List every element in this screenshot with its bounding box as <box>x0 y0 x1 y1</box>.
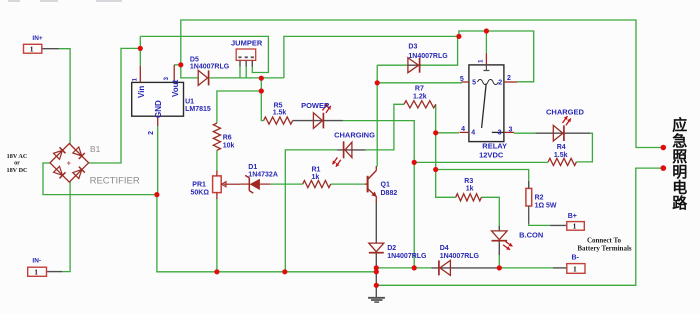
wire D3 node vertical <box>376 65 378 166</box>
svg-text:U1: U1 <box>185 99 194 106</box>
svg-text:R6: R6 <box>223 135 232 142</box>
svg-text:Vout: Vout <box>171 79 180 97</box>
wire node to R5 <box>261 91 263 121</box>
junction battery minus rail <box>374 283 379 288</box>
svg-text:RECTIFIER: RECTIFIER <box>90 176 140 187</box>
resistor R3 <box>456 194 482 201</box>
svg-text:1k: 1k <box>466 186 474 193</box>
bridge rectifier B1 <box>50 144 89 183</box>
junction Vout node <box>178 62 183 67</box>
wire ground rail jog <box>376 268 431 272</box>
resistor R7 <box>404 101 436 108</box>
svg-text:B+: B+ <box>568 213 577 220</box>
svg-text:D2: D2 <box>387 245 396 252</box>
svg-text:3: 3 <box>509 126 513 133</box>
wire output node to R6 <box>217 91 261 123</box>
svg-text:Connect To: Connect To <box>587 236 622 244</box>
svg-text:4: 4 <box>461 126 465 133</box>
terminal B- <box>567 264 585 274</box>
wire PR1 to ground rail <box>216 198 218 272</box>
wire bridge AC top stub <box>41 48 43 50</box>
wire U1 GND to rail <box>157 126 159 195</box>
svg-text:R4: R4 <box>557 144 566 151</box>
svg-text:1N4007RLG: 1N4007RLG <box>408 53 448 60</box>
wire R6 to PR1 <box>216 150 218 170</box>
svg-text:电: 电 <box>672 179 687 197</box>
junction Vin node <box>138 46 143 51</box>
svg-text:D882: D882 <box>381 190 398 197</box>
svg-text:1: 1 <box>573 222 577 231</box>
svg-text:Battery Terminals: Battery Terminals <box>577 244 632 252</box>
wire IN- to bridge bottom <box>62 182 70 272</box>
wire B+ stub <box>550 224 567 226</box>
junction D2 rail lower <box>374 269 379 274</box>
svg-text:1N4007RLG: 1N4007RLG <box>190 64 230 71</box>
svg-text:R2: R2 <box>535 195 544 202</box>
wire D5 cathode line <box>210 77 284 79</box>
resistor R2 <box>526 188 532 206</box>
svg-text:50KΩ: 50KΩ <box>191 190 210 197</box>
svg-text:R7: R7 <box>415 86 424 93</box>
svg-text:D1: D1 <box>248 164 257 171</box>
wire Q1 emitter to D2 to ground stem <box>375 202 377 243</box>
svg-text:1: 1 <box>30 45 34 54</box>
junction D2 rail upper <box>374 265 379 270</box>
svg-text:D5: D5 <box>190 56 199 63</box>
junction B.CON rail <box>497 265 502 270</box>
wire rail D4 to B.CON node <box>498 267 554 269</box>
wire relay pin 1 riser <box>485 31 487 54</box>
svg-text:2: 2 <box>498 79 502 86</box>
junction relay pin4 node A <box>433 130 438 135</box>
wire B.CON LED lower lead <box>498 242 500 256</box>
wire CHARGING LED to R7 elbow <box>366 104 404 150</box>
jumper JP1 <box>236 49 256 60</box>
terminal IN- <box>28 267 47 276</box>
wire CHARGED LED leads <box>535 132 590 134</box>
wire Vin riser <box>139 36 141 66</box>
wire B- stub <box>553 267 567 269</box>
svg-text:1Ω 5W: 1Ω 5W <box>535 203 557 210</box>
wire B.CON LED to rail <box>498 254 500 268</box>
svg-text:Vin: Vin <box>137 86 146 98</box>
diode D3 <box>408 58 419 73</box>
svg-text:照: 照 <box>672 148 687 165</box>
wire R2 to B+ terminal <box>529 223 550 225</box>
svg-text:R1: R1 <box>312 166 321 173</box>
wire D1 to R1 <box>270 183 302 185</box>
svg-text:10k: 10k <box>223 142 235 149</box>
wire relay pin 4 link <box>436 132 459 134</box>
wire coil node to relay pin 5 <box>377 82 462 84</box>
svg-text:B.CON: B.CON <box>519 231 543 240</box>
wire lamp line to R4 <box>414 161 548 163</box>
wire R7 to relay pin 4 node <box>435 104 437 133</box>
wire output rail to relay pin 2 <box>284 31 534 82</box>
wire CHARGED LED to relay pin 3 <box>514 132 535 134</box>
wire bridge negative rail <box>43 163 376 272</box>
svg-text:B-: B- <box>572 255 580 262</box>
svg-text:IN-: IN- <box>32 258 41 265</box>
wire top rail from Vout node to right side <box>181 20 663 148</box>
wire IN- stub <box>47 271 63 273</box>
junction relay pin1 node <box>484 28 489 33</box>
wire R1 to Q1 base <box>331 183 365 185</box>
zener diode D1 <box>251 180 260 190</box>
LED CHARGING <box>345 142 352 157</box>
wire D3 leads <box>408 64 422 66</box>
svg-text:3: 3 <box>498 130 502 137</box>
svg-text:1: 1 <box>34 268 38 277</box>
svg-text:5: 5 <box>472 79 476 86</box>
junction lamp return rail <box>412 265 417 270</box>
wire battery negative rail to output <box>376 168 662 285</box>
svg-text:IN+: IN+ <box>32 35 43 42</box>
svg-text:1N4007RLG: 1N4007RLG <box>387 253 427 260</box>
svg-text:RELAY: RELAY <box>482 142 507 151</box>
svg-text:2: 2 <box>507 75 511 82</box>
svg-text:or: or <box>14 160 20 167</box>
svg-text:LM7815: LM7815 <box>185 106 211 113</box>
wire IN+ stub <box>42 48 59 50</box>
junction R5 node <box>259 88 264 93</box>
wire output node vertical <box>260 78 262 91</box>
svg-text:明: 明 <box>672 164 687 181</box>
wire pin4 node to R2 <box>436 170 529 189</box>
wire D3 cathode riser <box>421 36 458 65</box>
svg-text:5: 5 <box>460 76 464 83</box>
wire CHARGING LED leads <box>337 149 365 151</box>
LED CHARGED <box>553 125 563 141</box>
svg-text:POWER: POWER <box>301 101 330 110</box>
wire R4 to CHARGED LED <box>576 133 592 162</box>
wire bridge positive to Vin <box>88 48 140 163</box>
svg-text:GND: GND <box>154 100 163 118</box>
ground <box>368 297 385 299</box>
LED POWER <box>313 113 322 129</box>
svg-text:D3: D3 <box>408 43 417 50</box>
resistor R5 <box>264 117 293 124</box>
svg-text:1N4007RLG: 1N4007RLG <box>440 253 480 260</box>
wire D4 leads <box>432 267 498 269</box>
svg-text:1: 1 <box>573 264 577 273</box>
svg-text:急: 急 <box>672 132 687 150</box>
junction charging drop <box>282 269 287 274</box>
junction lamp node C <box>412 160 417 165</box>
svg-text:PR1: PR1 <box>192 182 206 189</box>
terminal B+ <box>567 222 585 231</box>
wire POWER LED line <box>343 121 414 268</box>
svg-text:JUMPER: JUMPER <box>231 38 263 47</box>
svg-text:R3: R3 <box>464 178 473 185</box>
svg-text:CHARGING: CHARGING <box>334 131 375 140</box>
svg-text:12VDC: 12VDC <box>479 150 504 159</box>
diode D5 <box>198 70 207 85</box>
junction D5 output node <box>259 76 264 81</box>
resistor R6 <box>213 123 220 150</box>
svg-text:1N4732A: 1N4732A <box>248 172 278 179</box>
wire pin4 node vertical to R3 <box>436 133 456 198</box>
junction D3 top node <box>456 34 461 39</box>
svg-text:1.5k: 1.5k <box>554 152 568 159</box>
resistor R4 <box>548 158 576 165</box>
svg-text:R5: R5 <box>274 102 283 109</box>
junction coil node <box>375 80 380 85</box>
svg-text:B1: B1 <box>90 144 101 154</box>
wire unregulated rail to jumper pin 3 <box>140 36 268 72</box>
resistor R1 <box>303 181 331 188</box>
wire D2 cathode stem <box>375 254 377 298</box>
junction R2 node B <box>433 167 438 172</box>
svg-text:应: 应 <box>672 116 687 134</box>
svg-text:D4: D4 <box>440 245 449 252</box>
wire D3 anode elbow <box>377 64 407 66</box>
diode D4 <box>440 260 451 275</box>
terminal IN+ <box>24 44 42 53</box>
wire R3 to B.CON LED <box>481 197 499 228</box>
wire Vout node to D5 anode <box>181 63 198 78</box>
svg-text:路: 路 <box>672 194 688 212</box>
potentiometer PR1 <box>213 176 222 193</box>
wire CHARGING LED to ground rail riser <box>285 150 337 272</box>
wire jumper pin 2 drop <box>245 66 247 78</box>
LED B.CON <box>492 231 508 240</box>
transistor Q1 <box>367 176 369 193</box>
svg-text:CHARGED: CHARGED <box>546 108 585 117</box>
wire B.CON LED leads <box>498 226 500 231</box>
wire jumper pin 1 drop <box>239 66 241 78</box>
wire IN+ to bridge top <box>59 49 70 145</box>
svg-text:1.5k: 1.5k <box>273 110 287 117</box>
svg-text:4: 4 <box>471 130 475 137</box>
svg-text:1.2k: 1.2k <box>413 94 427 101</box>
wire POWER LED leads <box>293 120 343 122</box>
op-amp regulator U1 LM7815 <box>132 82 184 116</box>
svg-text:18V DC: 18V DC <box>6 167 27 174</box>
junction ground rail at U1 <box>154 192 159 197</box>
svg-text:1k: 1k <box>312 174 320 181</box>
node output positive <box>661 145 667 151</box>
diode D2 <box>369 243 384 252</box>
svg-text:+: + <box>67 160 71 167</box>
wire Vout pin stub link <box>174 64 181 66</box>
svg-text:2: 2 <box>148 131 155 135</box>
relay K1 <box>469 65 504 142</box>
junction PR1 bottom <box>214 269 219 274</box>
node output negative <box>661 165 667 171</box>
svg-text:Q1: Q1 <box>381 181 390 188</box>
